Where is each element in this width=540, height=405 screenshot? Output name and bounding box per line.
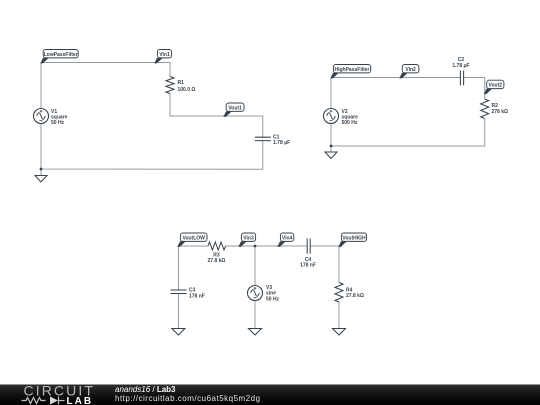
- svg-text:27.8 kΩ: 27.8 kΩ: [208, 258, 226, 264]
- svg-text:Vin4: Vin4: [282, 235, 293, 241]
- svg-text:27.8 kΩ: 27.8 kΩ: [346, 293, 364, 299]
- svg-text:http://circuitlab.com/cu6at5kq: http://circuitlab.com/cu6at5kq5m2dg: [115, 394, 261, 403]
- svg-text:Vin2: Vin2: [405, 67, 416, 73]
- svg-text:VoutLOW: VoutLOW: [182, 235, 205, 241]
- svg-text:100.0 Ω: 100.0 Ω: [178, 87, 196, 93]
- svg-text:50 Hz: 50 Hz: [266, 296, 280, 302]
- svg-text:VoutHIGH: VoutHIGH: [342, 235, 366, 241]
- svg-text:Vout2: Vout2: [489, 83, 503, 89]
- svg-text:50 Hz: 50 Hz: [51, 120, 65, 126]
- svg-text:LowPassFilter: LowPassFilter: [44, 52, 78, 58]
- svg-text:1.78 μF: 1.78 μF: [273, 140, 290, 146]
- svg-text:278 kΩ: 278 kΩ: [492, 109, 509, 115]
- svg-text:anands16 / Lab3: anands16 / Lab3: [115, 385, 176, 394]
- svg-text:HighPassFilter: HighPassFilter: [334, 67, 369, 73]
- svg-text:1.78 μF: 1.78 μF: [452, 63, 469, 69]
- svg-text:R1: R1: [178, 80, 185, 86]
- svg-text:178 nF: 178 nF: [189, 293, 205, 299]
- svg-text:Vout1: Vout1: [228, 105, 242, 111]
- svg-text:Vin3: Vin3: [243, 235, 254, 241]
- svg-text:178 nF: 178 nF: [300, 263, 316, 269]
- svg-text:LAB: LAB: [67, 396, 94, 405]
- svg-text:500 Hz: 500 Hz: [342, 120, 358, 126]
- svg-text:Vin1: Vin1: [159, 52, 170, 58]
